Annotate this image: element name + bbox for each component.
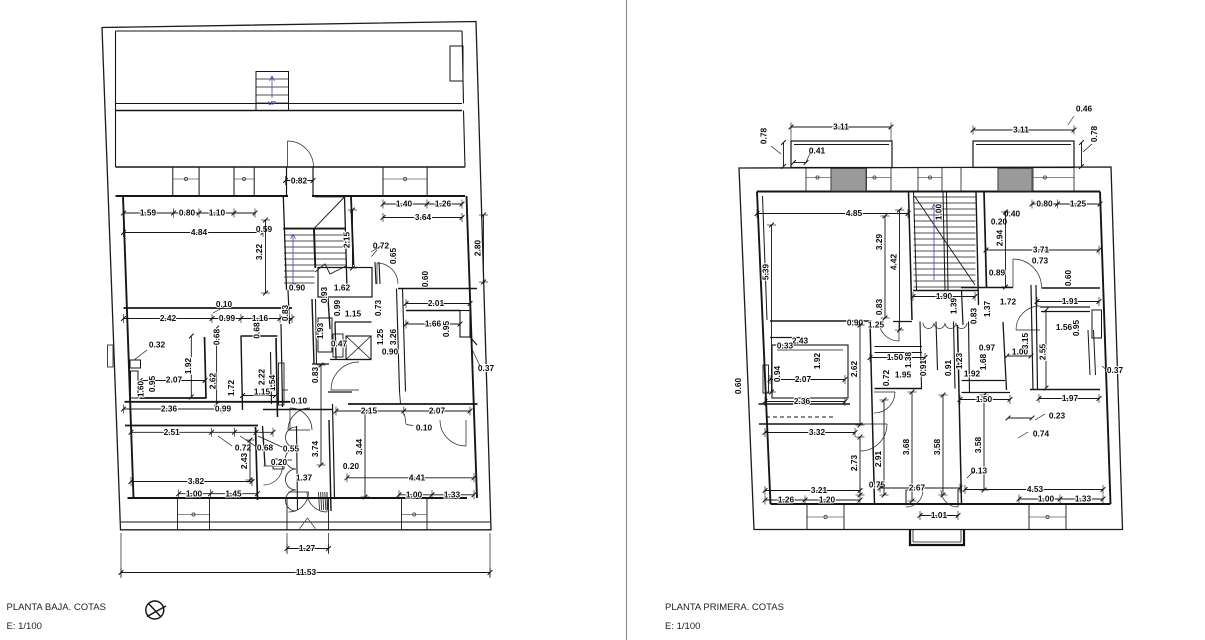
svg-text:0.95: 0.95: [441, 321, 451, 338]
svg-text:2.80: 2.80: [473, 240, 483, 257]
svg-text:1.01: 1.01: [931, 510, 948, 520]
svg-text:0.91: 0.91: [918, 360, 928, 377]
svg-text:3.21: 3.21: [811, 485, 828, 495]
svg-text:1.20: 1.20: [819, 495, 836, 505]
svg-text:0.33: 0.33: [777, 341, 794, 351]
svg-text:0.78: 0.78: [1089, 126, 1099, 143]
svg-text:2.22: 2.22: [257, 369, 267, 386]
svg-text:0.68: 0.68: [212, 329, 222, 346]
svg-text:4.53: 4.53: [1027, 484, 1044, 494]
svg-text:1.40: 1.40: [396, 199, 413, 209]
svg-text:0.90: 0.90: [289, 283, 306, 293]
svg-text:PLANTA PRIMERA. COTAS: PLANTA PRIMERA. COTAS: [665, 602, 784, 613]
svg-text:3.71: 3.71: [1033, 245, 1050, 255]
svg-text:0.13: 0.13: [971, 466, 988, 476]
svg-text:11.53: 11.53: [296, 567, 317, 577]
svg-text:1.62: 1.62: [334, 283, 351, 293]
svg-text:1.39: 1.39: [949, 298, 959, 315]
svg-text:0.60: 0.60: [1063, 270, 1073, 287]
svg-text:2.67: 2.67: [909, 483, 926, 493]
svg-text:2.07: 2.07: [166, 375, 183, 385]
svg-text:0.46: 0.46: [1076, 104, 1093, 114]
svg-text:0.73: 0.73: [1032, 256, 1049, 266]
svg-text:3.64: 3.64: [415, 212, 432, 222]
svg-text:3.58: 3.58: [973, 437, 983, 454]
svg-text:3.58: 3.58: [932, 439, 942, 456]
svg-text:2.51: 2.51: [164, 427, 181, 437]
svg-text:0.20: 0.20: [271, 457, 288, 467]
svg-text:0.90: 0.90: [847, 318, 864, 328]
svg-text:1.38: 1.38: [903, 352, 913, 369]
svg-text:0.55: 0.55: [283, 444, 300, 454]
svg-text:1.10: 1.10: [209, 208, 226, 218]
svg-text:1.00: 1.00: [186, 488, 203, 498]
svg-text:3.74: 3.74: [310, 441, 320, 458]
svg-text:1.59: 1.59: [140, 208, 157, 218]
svg-text:2.91: 2.91: [873, 451, 883, 468]
svg-text:0.80: 0.80: [1036, 199, 1053, 209]
svg-text:0.99: 0.99: [215, 404, 232, 414]
svg-text:2.55: 2.55: [1038, 344, 1048, 361]
svg-text:0.89: 0.89: [989, 268, 1006, 278]
svg-text:0.10: 0.10: [216, 299, 233, 309]
svg-text:0.72: 0.72: [881, 370, 891, 387]
svg-text:2.15: 2.15: [342, 232, 352, 249]
svg-text:0.82: 0.82: [291, 176, 308, 186]
svg-text:1.27: 1.27: [299, 543, 316, 553]
svg-text:1.56: 1.56: [1056, 322, 1073, 332]
svg-text:4.85: 4.85: [846, 208, 863, 218]
svg-text:1.33: 1.33: [1075, 494, 1092, 504]
svg-text:0.72: 0.72: [373, 241, 390, 251]
svg-text:0.99: 0.99: [219, 313, 236, 323]
svg-text:1.00: 1.00: [934, 204, 944, 221]
svg-text:2.36: 2.36: [161, 404, 178, 414]
svg-text:0.37: 0.37: [1107, 365, 1124, 375]
svg-text:0.65: 0.65: [388, 248, 398, 265]
svg-text:1.37: 1.37: [296, 473, 313, 483]
svg-text:0.20: 0.20: [991, 217, 1008, 227]
svg-text:1.91: 1.91: [1062, 296, 1079, 306]
svg-text:1.72: 1.72: [1000, 297, 1017, 307]
svg-text:2.94: 2.94: [995, 230, 1005, 247]
svg-text:0.32: 0.32: [149, 340, 166, 350]
svg-text:0.72: 0.72: [235, 443, 252, 453]
svg-text:4.41: 4.41: [409, 472, 426, 482]
svg-text:2.42: 2.42: [160, 313, 177, 323]
svg-text:0.83: 0.83: [969, 308, 979, 325]
svg-text:1.23: 1.23: [954, 353, 964, 370]
svg-text:0.95: 0.95: [1071, 320, 1081, 337]
svg-text:0.97: 0.97: [979, 343, 996, 353]
svg-text:0.10: 0.10: [416, 423, 433, 433]
svg-text:0.74: 0.74: [1033, 429, 1050, 439]
svg-text:1.25: 1.25: [1070, 199, 1087, 209]
svg-text:0.93: 0.93: [319, 287, 329, 304]
svg-text:2.07: 2.07: [795, 374, 812, 384]
svg-text:1.72: 1.72: [226, 380, 236, 397]
svg-text:E: 1/100: E: 1/100: [7, 621, 42, 632]
svg-text:2.62: 2.62: [208, 373, 218, 390]
svg-text:0.94: 0.94: [772, 366, 782, 383]
svg-text:1.15: 1.15: [345, 309, 362, 319]
svg-text:0.95: 0.95: [147, 376, 157, 393]
svg-text:1.15: 1.15: [254, 387, 271, 397]
svg-text:2.62: 2.62: [849, 361, 859, 378]
svg-text:3.29: 3.29: [874, 234, 884, 251]
svg-text:4.42: 4.42: [889, 254, 899, 271]
svg-text:2.01: 2.01: [428, 298, 445, 308]
svg-text:1.97: 1.97: [1062, 393, 1079, 403]
svg-text:1.26: 1.26: [435, 199, 452, 209]
svg-text:1.50: 1.50: [976, 394, 993, 404]
svg-text:0.20: 0.20: [343, 461, 360, 471]
svg-text:3.15: 3.15: [1020, 333, 1030, 350]
svg-text:1.25: 1.25: [375, 329, 385, 346]
svg-text:E: 1/100: E: 1/100: [665, 621, 700, 632]
svg-text:0.91: 0.91: [943, 360, 953, 377]
svg-text:0.59: 0.59: [256, 224, 273, 234]
svg-text:2.07: 2.07: [429, 406, 446, 416]
svg-text:0.68: 0.68: [257, 443, 274, 453]
svg-text:0.83: 0.83: [280, 305, 290, 322]
svg-text:0.83: 0.83: [310, 367, 320, 384]
svg-text:2.43: 2.43: [239, 453, 249, 470]
svg-text:4.84: 4.84: [191, 227, 208, 237]
svg-text:0.90: 0.90: [382, 347, 399, 357]
svg-text:2.15: 2.15: [361, 406, 378, 416]
svg-text:0.23: 0.23: [1049, 411, 1066, 421]
svg-text:3.22: 3.22: [254, 244, 264, 261]
svg-text:0.60: 0.60: [733, 378, 743, 395]
svg-text:0.68: 0.68: [252, 322, 262, 339]
svg-text:0.60: 0.60: [420, 271, 430, 288]
svg-text:1.68: 1.68: [978, 354, 988, 371]
svg-text:1.25: 1.25: [868, 320, 885, 330]
svg-text:1.50: 1.50: [887, 352, 904, 362]
svg-text:2.73: 2.73: [849, 455, 859, 472]
svg-text:0.80: 0.80: [179, 208, 196, 218]
svg-text:1.92: 1.92: [812, 353, 822, 370]
svg-text:0.47: 0.47: [331, 339, 348, 349]
svg-text:0.78: 0.78: [759, 128, 769, 145]
svg-text:UP: UP: [268, 101, 276, 107]
svg-text:3.68: 3.68: [901, 439, 911, 456]
svg-text:3.26: 3.26: [388, 329, 398, 346]
svg-text:1.92: 1.92: [183, 358, 193, 375]
svg-text:1.00: 1.00: [1038, 494, 1055, 504]
svg-text:1.26: 1.26: [778, 495, 795, 505]
svg-text:0.73: 0.73: [373, 300, 383, 317]
svg-text:PLANTA BAJA. COTAS: PLANTA BAJA. COTAS: [7, 602, 106, 613]
svg-text:3.82: 3.82: [188, 476, 205, 486]
svg-text:3.11: 3.11: [1013, 125, 1029, 135]
svg-text:0.10: 0.10: [291, 396, 308, 406]
svg-text:3.32: 3.32: [809, 427, 826, 437]
svg-text:2.36: 2.36: [794, 396, 811, 406]
svg-text:0.99: 0.99: [332, 300, 342, 317]
svg-text:5.39: 5.39: [761, 264, 771, 281]
svg-text:1.33: 1.33: [444, 489, 461, 499]
svg-text:0.37: 0.37: [478, 363, 495, 373]
svg-text:3.11: 3.11: [833, 122, 849, 132]
svg-text:1.16: 1.16: [252, 313, 269, 323]
svg-text:1.60: 1.60: [136, 381, 146, 398]
svg-text:1.95: 1.95: [895, 370, 912, 380]
svg-text:1.37: 1.37: [982, 301, 992, 318]
svg-text:1.45: 1.45: [225, 488, 242, 498]
svg-text:1.93: 1.93: [315, 323, 325, 340]
svg-text:3.44: 3.44: [354, 439, 364, 456]
svg-text:0.41: 0.41: [809, 146, 826, 156]
svg-text:1.00: 1.00: [406, 489, 423, 499]
svg-text:1.66: 1.66: [425, 319, 442, 329]
svg-text:0.83: 0.83: [874, 299, 884, 316]
svg-text:2.43: 2.43: [792, 336, 809, 346]
